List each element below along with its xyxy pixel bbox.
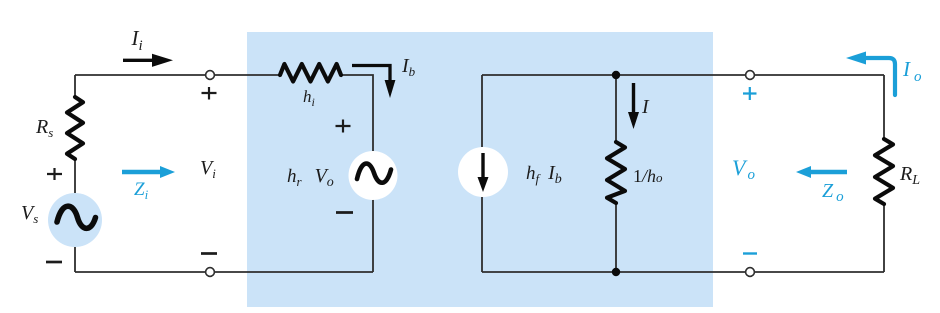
svg-text:Vo: Vo [732, 155, 755, 183]
wire: output section left branch below source [481, 197, 483, 272]
current I arrow [632, 83, 635, 113]
resistor 1/ho [607, 142, 625, 203]
wire: 1/ho branch bottom [615, 203, 617, 272]
plus sign Vi [202, 87, 217, 100]
resistor h_i [280, 64, 341, 82]
current Ii arrow [123, 59, 152, 62]
svg-text:Zi: Zi [134, 179, 149, 202]
current Io arrow [864, 58, 895, 95]
minus sign below Vs [46, 261, 62, 264]
wire: below Vs source [74, 247, 76, 272]
resistor Rs [67, 97, 83, 159]
impedance Zo arrow [811, 170, 847, 174]
wire: RL branch bottom [883, 204, 885, 272]
svg-text:Io: Io [902, 57, 922, 85]
minus sign Vi [201, 252, 217, 255]
svg-text:Vs: Vs [21, 202, 38, 226]
wire: output section left branch above source [481, 75, 483, 147]
wire: left branch above Rs [74, 75, 76, 97]
wire: input loop top (Vs top to input terminal to h_i) [75, 74, 280, 76]
junction dot top [612, 71, 620, 79]
current source h_f Ib arrow [481, 153, 484, 178]
input terminal bottom [206, 268, 215, 277]
wire: input loop bottom [75, 271, 373, 273]
controlled source h_r Vo sine [357, 164, 391, 183]
wire: output section bottom [482, 271, 884, 273]
svg-text:Zo: Zo [822, 180, 844, 205]
svg-text:Ii: Ii [131, 26, 143, 54]
wire: output section top [482, 74, 884, 76]
wire: between Rs and Vs source [74, 159, 76, 193]
plus sign Vo [743, 87, 757, 100]
wire: 1/ho branch top [615, 75, 617, 142]
wire: h_i right to corner down to h_r V_o source [341, 75, 373, 153]
resistor RL [875, 139, 893, 204]
current source h_f Ib circle [458, 147, 508, 197]
Vs source circle [48, 193, 102, 247]
plus sign h_r Vo [336, 120, 351, 133]
Vs sine wave [57, 206, 96, 228]
wire: below h_r V_o source down to bottom [372, 199, 374, 272]
svg-text:I: I [641, 96, 650, 118]
controlled source h_r Vo circle [349, 151, 398, 200]
impedance Zi arrow [122, 170, 160, 174]
svg-text:Vi: Vi [200, 157, 216, 181]
output terminal top [746, 71, 755, 80]
svg-text:Rs: Rs [35, 116, 53, 140]
current Ib arrow [352, 66, 390, 82]
minus sign h_r Vo [336, 211, 353, 214]
minus sign Vo [743, 252, 757, 254]
svg-text:RL: RL [899, 163, 920, 188]
shaded h-parameter model region [247, 32, 713, 307]
input terminal top [206, 71, 215, 80]
junction dot bottom [612, 268, 620, 276]
wire: RL branch top [883, 75, 885, 139]
output terminal bottom [746, 268, 755, 277]
plus sign above Vs [47, 168, 62, 180]
